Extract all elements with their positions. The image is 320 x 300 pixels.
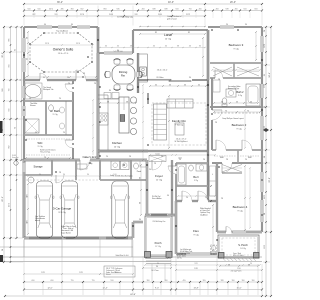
interior dim sporch row [220, 265, 258, 267]
window right bath2 [261, 84, 264, 98]
svg-text:Clg Above: Clg Above [200, 213, 208, 216]
dimension line top row 2 [24, 10, 262, 12]
interior dim owners suite [31, 44, 93, 46]
extension lines top margin [23, 6, 25, 26]
svg-text:3’8: 3’8 [177, 46, 179, 48]
svg-text:11’4 Clg: 11’4 Clg [58, 212, 65, 214]
dimension line left col 3 [16, 27, 18, 238]
svg-text:2’8: 2’8 [215, 122, 217, 124]
dimension line bottom row 2 [24, 289, 262, 291]
interior wall laundry block [99, 160, 101, 180]
svg-text:13’-8”: 13’-8” [193, 288, 198, 290]
svg-text:4’0: 4’0 [198, 84, 200, 86]
svg-text:4’0: 4’0 [165, 46, 167, 48]
svg-text:5’0: 5’0 [26, 37, 28, 39]
closet bedroom4 [222, 165, 242, 173]
svg-text:4’0 Clg Porch: 4’0 Clg Porch [231, 271, 242, 273]
interior dim porch row [146, 257, 168, 259]
svg-text:grill & hood: grill & hood [167, 17, 176, 20]
svg-text:3’0: 3’0 [139, 219, 141, 221]
front door [150, 214, 168, 217]
door bedroom4 [222, 162, 232, 165]
interior wall bed2 south wic [212, 149, 262, 151]
owners entry bench [77, 164, 87, 169]
dimension line left col 2 [10, 27, 12, 262]
family sectional sofa [154, 104, 167, 140]
interior dim right inner col [244, 166, 246, 230]
svg-text:12’4: 12’4 [45, 43, 48, 45]
bath3 vanity [196, 164, 207, 171]
svg-text:Porch: Porch [155, 241, 162, 245]
interior wall owners suite south [24, 79, 98, 81]
left edge crop mark 2 [0, 255, 3, 262]
garage step dashed [26, 179, 98, 181]
svg-text:26’-0”: 26’-0” [230, 1, 236, 4]
kitchen stools [130, 97, 136, 103]
door bedroom2 [211, 110, 214, 120]
window right bed4 2 [261, 200, 264, 222]
svg-text:12’8: 12’8 [41, 272, 44, 274]
svg-text:4’6: 4’6 [189, 46, 191, 48]
interior wall bedroom3 closet [210, 62, 262, 64]
svg-text:13’-4 x 17’-0: 13’-4 x 17’-0 [58, 53, 68, 55]
svg-text:2’8: 2’8 [85, 157, 87, 159]
svg-text:8’2: 8’2 [155, 32, 157, 34]
left col1 extra ticks [3, 51, 5, 53]
svg-text:6’2: 6’2 [15, 49, 17, 51]
door garage entry [80, 159, 90, 162]
svg-text:7’6: 7’6 [225, 110, 227, 112]
svg-text:9’4 Clg: 9’4 Clg [240, 248, 246, 250]
sidewalk line 1 [0, 246, 133, 248]
family coffee table [175, 123, 184, 135]
exterior wall bedroom3 top [208, 26, 262, 28]
driveway edge right [131, 240, 133, 258]
door tag specks [82, 76, 84, 78]
bath2 toilet [222, 98, 227, 104]
door bath3 [175, 166, 178, 174]
exterior wall garage bottom [24, 237, 133, 240]
svg-text:5’0: 5’0 [149, 169, 151, 171]
svg-text:4’8: 4’8 [130, 46, 132, 48]
interior dim mid col [142, 85, 144, 160]
bath2 tub [246, 84, 260, 106]
svg-text:11’0: 11’0 [26, 220, 28, 223]
svg-text:Whirlpool Tub: Whirlpool Tub [43, 88, 53, 91]
svg-text:Ba 3: Ba 3 [193, 176, 199, 179]
svg-text:Lanai: Lanai [164, 33, 172, 37]
interior dim flex row [178, 195, 215, 197]
water heater [28, 177, 34, 183]
svg-text:Vapor Barrier: Vapor Barrier [61, 231, 71, 234]
interior dim hall row [150, 154, 215, 156]
svg-text:13’8: 13’8 [194, 263, 197, 265]
svg-text:6’0: 6’0 [43, 77, 45, 79]
window flex bottom [186, 253, 210, 256]
interior wall bath wic divider [72, 80, 74, 160]
svg-text:2’4: 2’4 [63, 132, 65, 134]
svg-text:Family Rm: Family Rm [172, 119, 187, 123]
svg-text:Conc. Slab: Conc. Slab [233, 253, 241, 255]
left col bottom ticks [10, 237, 12, 239]
svg-text:W. Wd Clg/Struct: W. Wd Clg/Struct [175, 140, 188, 143]
svg-text:9’ Clg: 9’ Clg [53, 114, 58, 116]
svg-text:9’0: 9’0 [39, 174, 41, 176]
svg-text:Thru-Out Typ.: Thru-Out Typ. [40, 151, 51, 154]
svg-text:10’ Clg: 10’ Clg [165, 39, 171, 41]
outdoor kitchen counter [139, 54, 148, 82]
svg-text:Shower: Shower [30, 104, 36, 107]
svg-text:42’0 x 4’ Porch: 42’0 x 4’ Porch [233, 255, 244, 257]
interior wall hall east [207, 80, 209, 201]
exterior wall step at dining [97, 27, 99, 53]
svg-text:Struct Above: Struct Above [152, 197, 162, 200]
svg-text:2’8: 2’8 [226, 159, 228, 161]
svg-text:10’6: 10’6 [2, 88, 4, 91]
window right bed2 [261, 116, 264, 140]
interior wall flex top [176, 200, 217, 202]
svg-text:12’ Clg: 12’ Clg [156, 180, 162, 182]
window bedroom4 porch [233, 231, 246, 234]
svg-text:Bedroom 4: Bedroom 4 [233, 205, 248, 209]
dimension line right col 2 [270, 27, 272, 296]
svg-text:2’4: 2’4 [245, 159, 247, 161]
interior wall hall garage [24, 159, 147, 162]
window left wall owners 2 [23, 58, 26, 72]
kitchen counter west [107, 95, 109, 150]
svg-text:Dining: Dining [119, 70, 128, 74]
svg-text:Rm: Rm [121, 74, 125, 78]
extension lines bottom margin [23, 240, 25, 295]
interior wall bath mid [24, 100, 73, 102]
svg-text:4’6: 4’6 [250, 101, 252, 103]
svg-text:W-DS: W-DS [12, 155, 16, 157]
svg-text:7’6: 7’6 [247, 110, 249, 112]
svg-text:34’-4”: 34’-4” [269, 72, 271, 78]
exterior wall flex bottom [176, 253, 217, 255]
sidewalk line 3 [0, 261, 262, 263]
right col extra ticks [265, 35, 267, 37]
svg-text:2’6: 2’6 [203, 159, 205, 161]
svg-text:8’0 Dbl Entry Drs: 8’0 Dbl Entry Drs [153, 220, 166, 223]
svg-text:15’-0”: 15’-0” [236, 288, 241, 290]
interior dim bottom right row [176, 269, 262, 271]
svg-text:9’ Wd Clg: 9’ Wd Clg [175, 125, 184, 127]
bed2 wic door arcs [216, 149, 226, 152]
powder wc [134, 163, 139, 169]
laundry washer dryer [111, 161, 120, 170]
svg-text:4’6: 4’6 [184, 84, 186, 86]
svg-text:10’0: 10’0 [113, 174, 116, 176]
svg-text:2’8: 2’8 [221, 198, 223, 200]
svg-text:12’-4”: 12’-4” [102, 288, 107, 290]
door wic [72, 140, 75, 148]
interior dim bottom row2 [24, 273, 133, 275]
svg-text:Tray Clg Above: Tray Clg Above [56, 30, 68, 33]
interior dim kitchen col [92, 100, 94, 155]
svg-text:2’8: 2’8 [154, 163, 156, 165]
svg-text:WIC: WIC [37, 141, 42, 145]
closet bedroom3 bifolds [213, 67, 232, 76]
interior wall bed4 closet [222, 172, 242, 174]
car 2 [61, 181, 77, 238]
svg-text:3’0: 3’0 [245, 24, 247, 26]
bed2 drop wall dashed [214, 112, 260, 114]
svg-text:5’8: 5’8 [107, 101, 109, 103]
interior wall lanai bed3 divider [207, 30, 209, 80]
bath3 tub [177, 164, 186, 185]
front porch columns [145, 252, 151, 258]
interior dim garage col [27, 184, 29, 234]
svg-text:4’0: 4’0 [117, 46, 119, 48]
foyer niche [149, 156, 166, 162]
garage door dark lines [29, 236, 62, 238]
left col mid ticks [16, 100, 17, 101]
svg-text:9’0: 9’0 [87, 174, 89, 176]
svg-text:10’ Clg: 10’ Clg [114, 147, 120, 149]
family tray dashed [152, 103, 206, 145]
svg-text:2’8: 2’8 [218, 79, 220, 81]
note column box [104, 266, 135, 277]
dimension line right col 1 [265, 27, 267, 296]
svg-text:5’0: 5’0 [226, 24, 228, 26]
svg-text:9’ Clg: 9’ Clg [194, 180, 198, 182]
interior wall kitchen family divider [147, 93, 149, 104]
svg-text:Drop Wall per Owner Layout: Drop Wall per Owner Layout [222, 117, 244, 120]
interior wall storage [51, 160, 53, 175]
interior wall owners suite east [97, 53, 100, 160]
car 3 [112, 181, 128, 238]
svg-text:8’0 Slider: 8’0 Slider [156, 76, 163, 79]
interior wall foyer left [146, 160, 148, 215]
kitchen range [99, 113, 108, 125]
svg-text:12’4: 12’4 [76, 43, 79, 45]
wic rods [26, 138, 70, 140]
interior dim bed2 row [214, 111, 260, 113]
svg-text:2’8: 2’8 [129, 156, 131, 158]
svg-text:9’ Clg: 9’ Clg [237, 211, 242, 213]
window right bed3 [261, 36, 264, 52]
svg-text:Bedroom 2: Bedroom 2 [232, 123, 247, 127]
front porch outline [145, 216, 172, 256]
window owners suite top 2 [58, 26, 72, 29]
svg-text:Bonus Clg Typ.: Bonus Clg Typ. [228, 88, 240, 90]
hb symbol [14, 161, 18, 165]
interior dim dining row [100, 47, 205, 49]
svg-text:6’0: 6’0 [117, 50, 119, 52]
door flex [182, 200, 192, 203]
svg-text:O. Bath: O. Bath [50, 109, 60, 113]
window right bed4 1 [261, 172, 264, 192]
tray ceiling dashed octagon [30, 33, 92, 72]
interior wall lanai family [138, 79, 148, 81]
interior dim garage row [28, 175, 130, 177]
svg-text:3’0: 3’0 [199, 46, 201, 48]
interior dim bed4 col [249, 168, 251, 228]
svg-text:4’0: 4’0 [105, 46, 107, 48]
interior dim family row [150, 85, 206, 87]
svg-text:4’0 OC: 4’0 OC [177, 258, 183, 260]
exterior wall garage right step [132, 222, 134, 238]
exterior wall garage left [23, 160, 26, 238]
interior dim right col mid [244, 110, 246, 148]
svg-text:S. Porch: S. Porch [238, 244, 248, 247]
svg-text:2’4: 2’4 [106, 156, 108, 158]
svg-text:Above: Above [35, 219, 40, 222]
exterior wall flex left [175, 201, 177, 254]
window dining top [104, 52, 132, 55]
interior wall family south [148, 150, 208, 152]
interior wall bath3 [176, 162, 208, 164]
svg-text:2’8: 2’8 [94, 83, 96, 85]
interior wall owners entry [75, 160, 77, 180]
svg-text:2’8: 2’8 [59, 172, 61, 174]
svg-text:13’8: 13’8 [194, 268, 197, 270]
exterior wall right [261, 27, 263, 232]
kitchen counter north [98, 98, 119, 100]
svg-text:9’ Clg: 9’ Clg [193, 235, 198, 237]
svg-text:Foyer: Foyer [155, 174, 163, 178]
dining table [112, 65, 135, 84]
svg-text:10’ High Step Clg: 10’ High Step Clg [117, 15, 133, 18]
interior wall bed2 west [211, 78, 213, 150]
owners wc [49, 105, 54, 111]
interior dim bath2 row [214, 102, 258, 104]
svg-text:8’0: 8’0 [109, 90, 111, 92]
owners shower [25, 119, 39, 133]
svg-text:4’0: 4’0 [155, 84, 157, 86]
owners vanity [65, 101, 67, 135]
svg-text:9’0: 9’0 [63, 174, 65, 176]
svg-text:Storage: Storage [33, 165, 43, 169]
s porch columns [219, 253, 225, 259]
svg-text:6’0: 6’0 [2, 249, 4, 251]
svg-text:3-Car Garage: 3-Car Garage [53, 207, 72, 211]
garage door 2 [66, 237, 99, 240]
s porch outline [218, 235, 259, 258]
svg-text:4’0: 4’0 [127, 90, 129, 92]
svg-text:4’0: 4’0 [44, 24, 46, 26]
bath3 wc [189, 165, 194, 171]
svg-text:5’0: 5’0 [161, 156, 163, 158]
door owners suite [76, 79, 86, 82]
exterior wall bedroom4 bottom [217, 231, 262, 233]
interior dim bed3 col [255, 32, 257, 60]
lanai inner dim row [140, 26, 205, 28]
porch steps [146, 258, 171, 260]
door bedroom3 [215, 77, 223, 80]
door owners bath [72, 84, 75, 92]
exterior wall owners suite top [24, 26, 98, 28]
svg-text:6’8: 6’8 [228, 264, 230, 266]
extension lines left margin [6, 26, 24, 28]
svg-text:4’6: 4’6 [236, 101, 238, 103]
driveway edge left [23, 240, 25, 258]
window bath tub [23, 86, 26, 98]
svg-text:Bedroom 3: Bedroom 3 [229, 43, 244, 47]
sidewalk line 2 [0, 256, 262, 258]
svg-text:11’0: 11’0 [114, 272, 117, 274]
svg-text:8’2: 8’2 [188, 32, 190, 34]
svg-text:Solid Rod. 4-4-0: Solid Rod. 4-4-0 [116, 255, 129, 257]
svg-text:4’6: 4’6 [167, 195, 169, 197]
svg-text:Kitchen: Kitchen [112, 141, 122, 145]
interior dim hall col [168, 96, 170, 148]
svg-text:30’-0”: 30’-0” [2, 52, 4, 58]
dimension line bottom row 3 [5, 295, 262, 297]
svg-text:2’4: 2’4 [59, 98, 61, 100]
svg-text:WIC: WIC [248, 157, 253, 159]
extension lines right margin [263, 26, 270, 28]
dimension line top row 3 [24, 15, 205, 17]
interior dim owners col [27, 32, 29, 76]
interior wall foyer right [171, 160, 173, 215]
svg-text:9’ Clg: 9’ Clg [236, 129, 241, 131]
interior wall kitchen south [98, 150, 148, 152]
svg-text:2’4: 2’4 [186, 197, 188, 199]
interior wall dining east [137, 53, 139, 93]
svg-text:12’-0”: 12’-0” [47, 288, 52, 290]
s porch hatch [222, 258, 226, 262]
svg-text:3’0: 3’0 [189, 77, 191, 79]
svg-text:4’6: 4’6 [169, 84, 171, 86]
svg-text:Flex: Flex [193, 229, 199, 233]
svg-text:5’8: 5’8 [126, 101, 128, 103]
dining chairs [114, 59, 121, 64]
svg-text:4’0: 4’0 [153, 46, 155, 48]
storage door [56, 174, 64, 177]
sliding door lanai [148, 79, 192, 81]
interior dim porch bottom [143, 267, 171, 269]
svg-text:5’4: 5’4 [29, 98, 31, 100]
svg-text:2’4: 2’4 [179, 159, 181, 161]
svg-text:5’4: 5’4 [221, 101, 223, 103]
svg-text:26’-0”: 26’-0” [2, 196, 4, 202]
driveway joint lines [61, 240, 63, 258]
kitchen island [119, 97, 129, 133]
svg-text:40’-0”: 40’-0” [168, 1, 174, 4]
svg-text:5’0: 5’0 [250, 263, 252, 265]
window garage storage [23, 163, 26, 172]
interior wall bath2 south [210, 106, 262, 108]
interior dim bottom mid [145, 264, 260, 266]
svg-text:6’0: 6’0 [71, 24, 73, 26]
svg-text:2’8: 2’8 [67, 77, 69, 79]
svg-text:7’4: 7’4 [15, 127, 17, 129]
window owners suite top 1 [37, 26, 52, 29]
right edge arrow diamond [263, 128, 269, 132]
door foyer closet [152, 159, 162, 162]
interior wall wic top [24, 134, 73, 136]
svg-text:6’8: 6’8 [139, 177, 141, 179]
svg-text:9’ Clg: 9’ Clg [238, 95, 242, 97]
svg-text:9’ Clg: 9’ Clg [233, 49, 238, 51]
svg-text:2’8: 2’8 [83, 73, 85, 75]
svg-text:2’4: 2’4 [205, 197, 207, 199]
left edge crop mark 1 [0, 121, 3, 133]
interior dim suite bottom row [26, 76, 96, 78]
svg-text:33’-8”: 33’-8” [269, 177, 271, 183]
exterior wall front foyer [145, 214, 176, 216]
interior dim lanai row [140, 33, 205, 35]
interior dim foyer col [140, 165, 142, 215]
interior dim kitchen row [100, 102, 136, 104]
garage door 3 [106, 237, 128, 240]
window bedroom3 [220, 26, 234, 29]
front walk lines [151, 264, 153, 281]
svg-text:5’6: 5’6 [26, 58, 28, 60]
svg-text:6’8: 6’8 [139, 202, 141, 204]
